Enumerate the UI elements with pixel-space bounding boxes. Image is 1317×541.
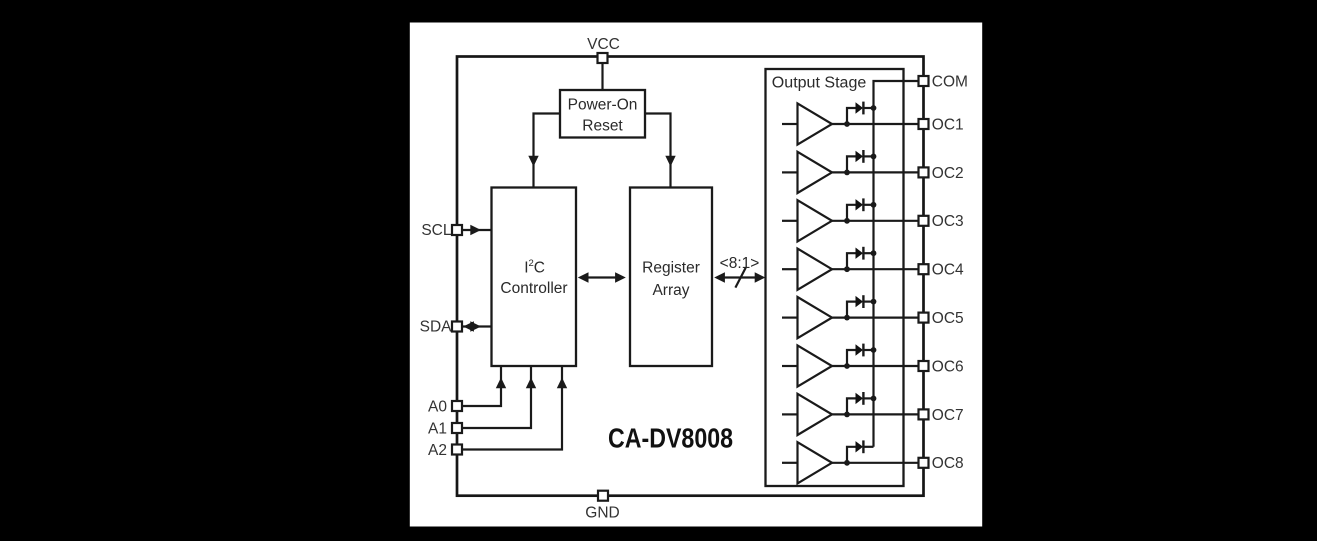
svg-text:OC1: OC1 xyxy=(932,116,964,133)
wire diode D5 cathode to COM rail xyxy=(863,301,873,303)
svg-text:Reset: Reset xyxy=(582,118,623,135)
svg-text:OC4: OC4 xyxy=(932,262,964,279)
wire buffer B3 output to pin OC3 xyxy=(832,220,919,222)
pin OC2 xyxy=(919,167,929,177)
pin SDA xyxy=(452,322,462,332)
junction node buffer B6 output xyxy=(844,363,850,369)
svg-text:CA-DV8008: CA-DV8008 xyxy=(608,423,733,454)
wire buffer B6 input stub xyxy=(782,365,798,367)
svg-text:SDA: SDA xyxy=(420,318,453,335)
svg-text:OC3: OC3 xyxy=(932,213,964,230)
output channel 8 xyxy=(782,440,964,483)
svg-text:A1: A1 xyxy=(428,420,447,437)
wire buffer B2 output to pin OC2 xyxy=(832,171,919,173)
junction node buffer B4 output xyxy=(844,266,850,272)
block Output Stage xyxy=(766,69,904,486)
diode D4 xyxy=(856,248,864,259)
wire buffer B8 input stub xyxy=(782,462,798,464)
output channel 2 xyxy=(782,150,964,193)
wire A1 to I2C Controller xyxy=(462,366,531,428)
wire SCL to I2C Controller xyxy=(462,229,492,231)
svg-text:OC6: OC6 xyxy=(932,358,964,375)
wire node to diode D2 anode xyxy=(847,156,856,172)
svg-text:A0: A0 xyxy=(428,398,447,415)
chip outline U1 CA-DV8008 xyxy=(457,57,924,496)
diode D5 xyxy=(856,296,864,307)
svg-text:OC7: OC7 xyxy=(932,407,964,424)
svg-text:I2C: I2C xyxy=(524,258,545,277)
block Power-On Reset xyxy=(560,90,645,138)
wire node to diode D6 anode xyxy=(847,350,856,366)
buffer amplifier B5 xyxy=(798,297,833,338)
pin OC6 xyxy=(919,361,929,371)
output channel 1 xyxy=(782,102,964,145)
wire buffer B8 output to pin OC8 xyxy=(832,462,919,464)
junction node buffer B2 output xyxy=(844,170,850,176)
diode D8 xyxy=(856,441,864,452)
wire Power-On Reset to I2C Controller xyxy=(534,114,561,188)
junction node diode D5 on COM rail xyxy=(871,299,877,305)
wire buffer B5 input stub xyxy=(782,317,798,319)
wire I2C Controller to Register Array bidirectional xyxy=(586,276,618,278)
svg-text:OC8: OC8 xyxy=(932,455,964,472)
wire buffer B1 input stub xyxy=(782,123,798,125)
svg-text:A2: A2 xyxy=(428,442,447,459)
svg-text:Output Stage: Output Stage xyxy=(772,75,867,92)
svg-text:COM: COM xyxy=(932,73,968,90)
wire diode D7 cathode to COM rail xyxy=(863,397,873,399)
svg-text:VCC: VCC xyxy=(587,36,620,53)
pin VCC xyxy=(598,53,608,63)
diode D3 xyxy=(856,199,864,210)
figure white background xyxy=(410,23,982,527)
output channel 4 xyxy=(782,247,964,290)
pin A0 xyxy=(452,401,462,411)
junction node diode D2 on COM rail xyxy=(871,154,877,160)
wire node to diode D7 anode xyxy=(847,398,856,414)
buffer amplifier B6 xyxy=(798,345,833,386)
junction node buffer B1 output xyxy=(844,121,850,127)
wire node to diode D4 anode xyxy=(847,253,856,269)
svg-text:OC5: OC5 xyxy=(932,310,964,327)
buffer amplifier B3 xyxy=(798,200,833,241)
wire Register Array to Output Stage bidirectional bus xyxy=(722,276,758,278)
svg-text:<8:1>: <8:1> xyxy=(720,255,760,272)
pin OC3 xyxy=(919,216,929,226)
buffer amplifier B2 xyxy=(798,152,833,193)
junction node buffer B7 output xyxy=(844,412,850,418)
diode D7 xyxy=(856,393,864,404)
svg-text:SCL: SCL xyxy=(421,222,452,239)
junction node diode D1 on COM rail xyxy=(871,105,877,111)
svg-text:OC2: OC2 xyxy=(932,165,964,182)
wire node to diode D8 anode xyxy=(847,447,856,463)
wire node to diode D5 anode xyxy=(847,302,856,318)
junction node buffer B5 output xyxy=(844,315,850,321)
pin OC7 xyxy=(919,409,929,419)
wire A0 to I2C Controller xyxy=(462,366,501,406)
wire buffer B2 input stub xyxy=(782,171,798,173)
wire node to diode D3 anode xyxy=(847,205,856,221)
diode D6 xyxy=(856,344,864,355)
wire buffer B6 output to pin OC6 xyxy=(832,365,919,367)
pin OC8 xyxy=(919,458,929,468)
pin SCL xyxy=(452,225,462,235)
wire buffer B7 input stub xyxy=(782,413,798,415)
wire buffer B4 output to pin OC4 xyxy=(832,268,919,270)
junction node buffer B3 output xyxy=(844,218,850,224)
junction node diode D6 on COM rail xyxy=(871,347,877,353)
wire buffer B4 input stub xyxy=(782,268,798,270)
svg-text:GND: GND xyxy=(585,505,619,522)
wire VCC to Power-On Reset xyxy=(601,60,603,90)
wire Power-On Reset to Register Array xyxy=(645,114,671,188)
pin OC5 xyxy=(919,313,929,323)
junction node diode D4 on COM rail xyxy=(871,250,877,256)
wire diode D3 cathode to COM rail xyxy=(863,204,873,206)
pin A2 xyxy=(452,445,462,455)
wire diode D6 cathode to COM rail xyxy=(863,349,873,351)
bus slash marker xyxy=(735,268,745,288)
output channel 7 xyxy=(782,392,964,435)
wire SDA to I2C Controller bidirectional xyxy=(463,325,492,327)
svg-text:Register: Register xyxy=(642,260,700,277)
buffer amplifier B7 xyxy=(798,394,833,435)
pin A1 xyxy=(452,423,462,433)
pin OC4 xyxy=(919,264,929,274)
output channel 5 xyxy=(782,295,964,338)
svg-text:Power-On: Power-On xyxy=(568,97,638,114)
junction node diode D3 on COM rail xyxy=(871,202,877,208)
block Register Array xyxy=(630,188,712,367)
block I2C Controller xyxy=(492,188,577,367)
wire diode D1 cathode to COM rail xyxy=(863,107,873,109)
output channel 3 xyxy=(782,198,964,241)
wire diode D8 cathode to COM rail xyxy=(863,446,873,448)
wire A2 to I2C Controller xyxy=(462,366,562,450)
diode D1 xyxy=(856,102,864,113)
buffer amplifier B8 xyxy=(798,442,833,483)
wire buffer B7 output to pin OC7 xyxy=(832,413,919,415)
output channel 6 xyxy=(782,344,964,387)
wire diode D2 cathode to COM rail xyxy=(863,155,873,157)
svg-text:Array: Array xyxy=(652,282,689,299)
junction node buffer B8 output xyxy=(844,460,850,466)
pin GND xyxy=(598,491,608,501)
wire COM rail xyxy=(874,81,919,447)
wire buffer B1 output to pin OC1 xyxy=(832,123,919,125)
pin OC1 xyxy=(919,119,929,129)
diode D2 xyxy=(856,151,864,162)
junction node diode D7 on COM rail xyxy=(871,396,877,402)
wire buffer B5 output to pin OC5 xyxy=(832,317,919,319)
buffer amplifier B4 xyxy=(798,249,833,290)
buffer amplifier B1 xyxy=(798,103,833,144)
wire buffer B3 input stub xyxy=(782,220,798,222)
wire node to diode D1 anode xyxy=(847,108,856,124)
pin COM xyxy=(919,76,929,86)
wire diode D4 cathode to COM rail xyxy=(863,252,873,254)
svg-text:Controller: Controller xyxy=(500,280,567,297)
